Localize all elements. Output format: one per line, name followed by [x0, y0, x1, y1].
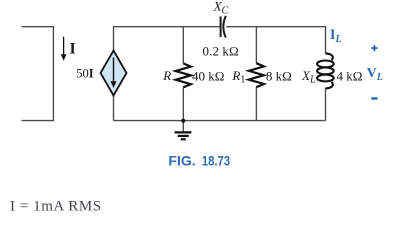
svg-text:50I: 50I [76, 67, 94, 81]
svg-text:XL: XL [301, 68, 316, 86]
svg-text:R: R [162, 68, 171, 83]
svg-text:I: I [70, 41, 76, 58]
svg-text:XC: XC [213, 0, 229, 16]
svg-text:R1: R1 [231, 68, 245, 86]
svg-text:IL: IL [330, 27, 342, 45]
svg-text:18.73: 18.73 [202, 153, 230, 169]
svg-text:40 kΩ: 40 kΩ [192, 68, 224, 83]
svg-text:VL: VL [367, 66, 383, 83]
svg-text:4 kΩ: 4 kΩ [337, 68, 363, 83]
svg-text:0.2 kΩ: 0.2 kΩ [203, 43, 239, 58]
svg-text:8 kΩ: 8 kΩ [266, 68, 292, 83]
svg-text:FIG.: FIG. [168, 153, 195, 169]
svg-text:I = 1mA RMS: I = 1mA RMS [10, 198, 102, 214]
